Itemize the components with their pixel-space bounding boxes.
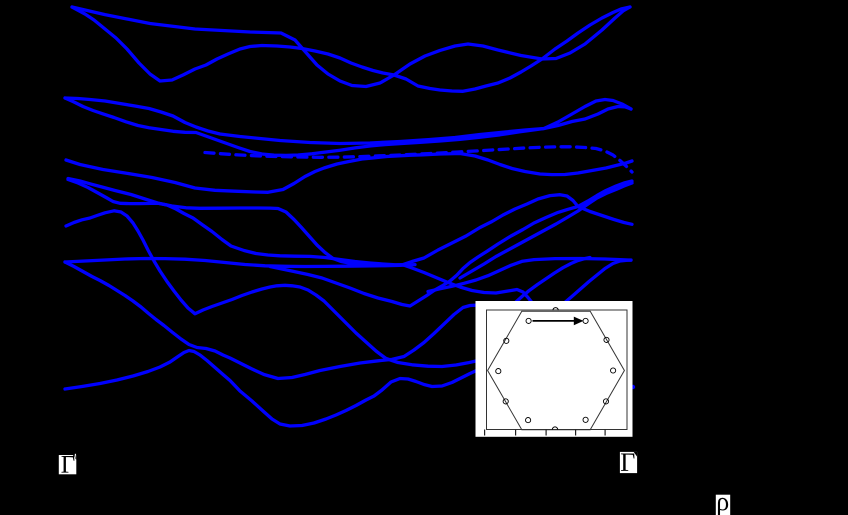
blue dot at right edge near inset xyxy=(631,385,635,389)
svg-text:Γ: Γ xyxy=(620,448,635,477)
inset axis tick xyxy=(546,430,547,436)
inset K-point circle upper-left edge xyxy=(504,338,509,343)
left gamma label white box xyxy=(59,455,77,474)
left gamma prime tick xyxy=(74,454,76,459)
svg-text:ρ: ρ xyxy=(716,487,729,515)
phonon band F2 xyxy=(68,180,532,303)
inset arrow head xyxy=(574,317,584,326)
inset K-point circle lower-right edge xyxy=(603,399,608,404)
phonon band riser emerging from inset top edge left xyxy=(516,258,591,303)
phonon band W (bounce branch to right edge) xyxy=(428,259,631,292)
phonon band Jw (partner riser) xyxy=(460,183,632,278)
right gamma label white box xyxy=(620,452,637,473)
inset K-point circle bottom-left xyxy=(526,418,531,423)
inset K-point circle (arrow start) xyxy=(526,318,531,323)
inset axis tick xyxy=(515,430,516,436)
phonon band C xyxy=(65,98,631,144)
inset border rectangle xyxy=(487,310,628,430)
inset K-point circle left vertex xyxy=(496,369,501,374)
inset K-point circle right vertex xyxy=(611,368,616,373)
phonon band J (valley branch) xyxy=(270,181,632,306)
phonon band (dashed branch) xyxy=(205,147,632,172)
phonon band H (flat branch) xyxy=(65,259,415,267)
phonon band riser emerging from inset top edge xyxy=(565,260,631,302)
inset K-point circle lower-left edge xyxy=(503,399,508,404)
phonon band D xyxy=(65,98,631,155)
inset axis tick xyxy=(575,430,576,436)
inset arrow shaft xyxy=(533,320,576,322)
inset K-point semicircle bottom center xyxy=(552,427,557,430)
rho axis label white box xyxy=(716,495,730,515)
phonon band K (acoustic branch) xyxy=(65,351,476,427)
phonon band F1 xyxy=(68,179,632,266)
inset K-point circle bottom-right xyxy=(583,417,588,422)
phonon band E xyxy=(66,154,632,193)
phonon band I xyxy=(65,262,476,379)
inset hexagonal Brillouin zone xyxy=(488,311,625,429)
inset axis tick xyxy=(605,430,606,436)
phonon band B (upper optical pair) xyxy=(72,7,630,91)
inset K-point circle upper-right edge xyxy=(604,337,609,342)
phonon band G xyxy=(66,211,476,367)
inset white background box xyxy=(476,301,633,437)
right gamma bevel corner xyxy=(634,452,638,457)
inset axis tick xyxy=(484,430,485,436)
phonon band A (upper optical branch) xyxy=(72,7,630,87)
inset K-point circle (arrow end) xyxy=(583,318,588,323)
inset K-point semicircle top center xyxy=(553,308,558,311)
left gamma bevel corner xyxy=(73,455,77,460)
